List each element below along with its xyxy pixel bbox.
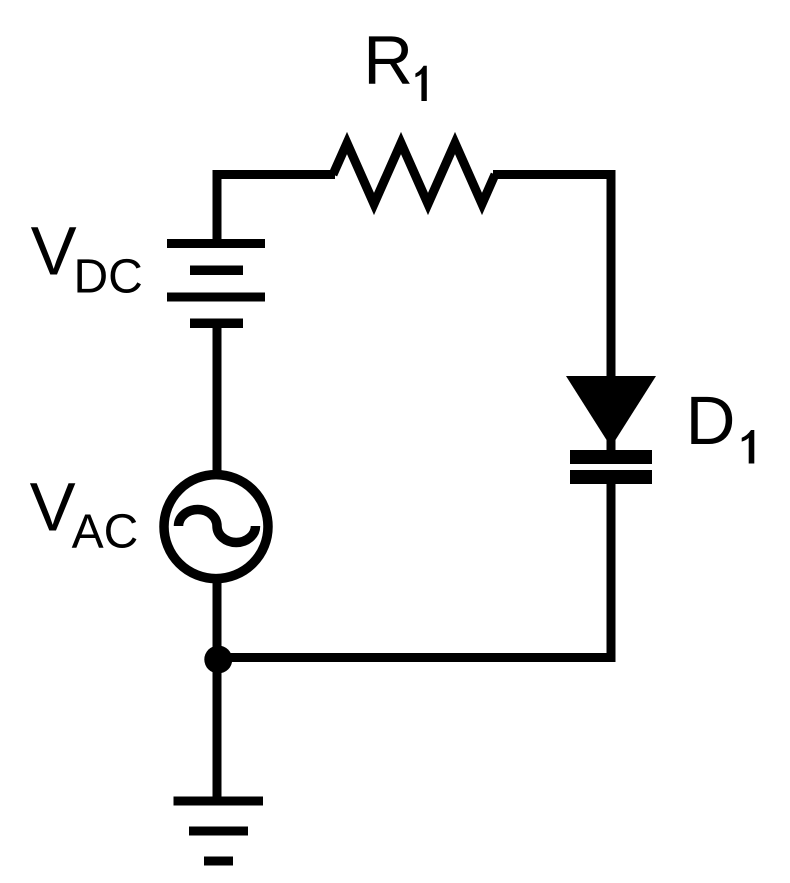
svg-text:V: V [31,213,77,290]
svg-text:V: V [30,469,76,546]
svg-text:D: D [686,382,736,459]
svg-text:R: R [363,22,413,99]
svg-text:DC: DC [74,251,143,304]
svg-text:AC: AC [72,506,139,559]
